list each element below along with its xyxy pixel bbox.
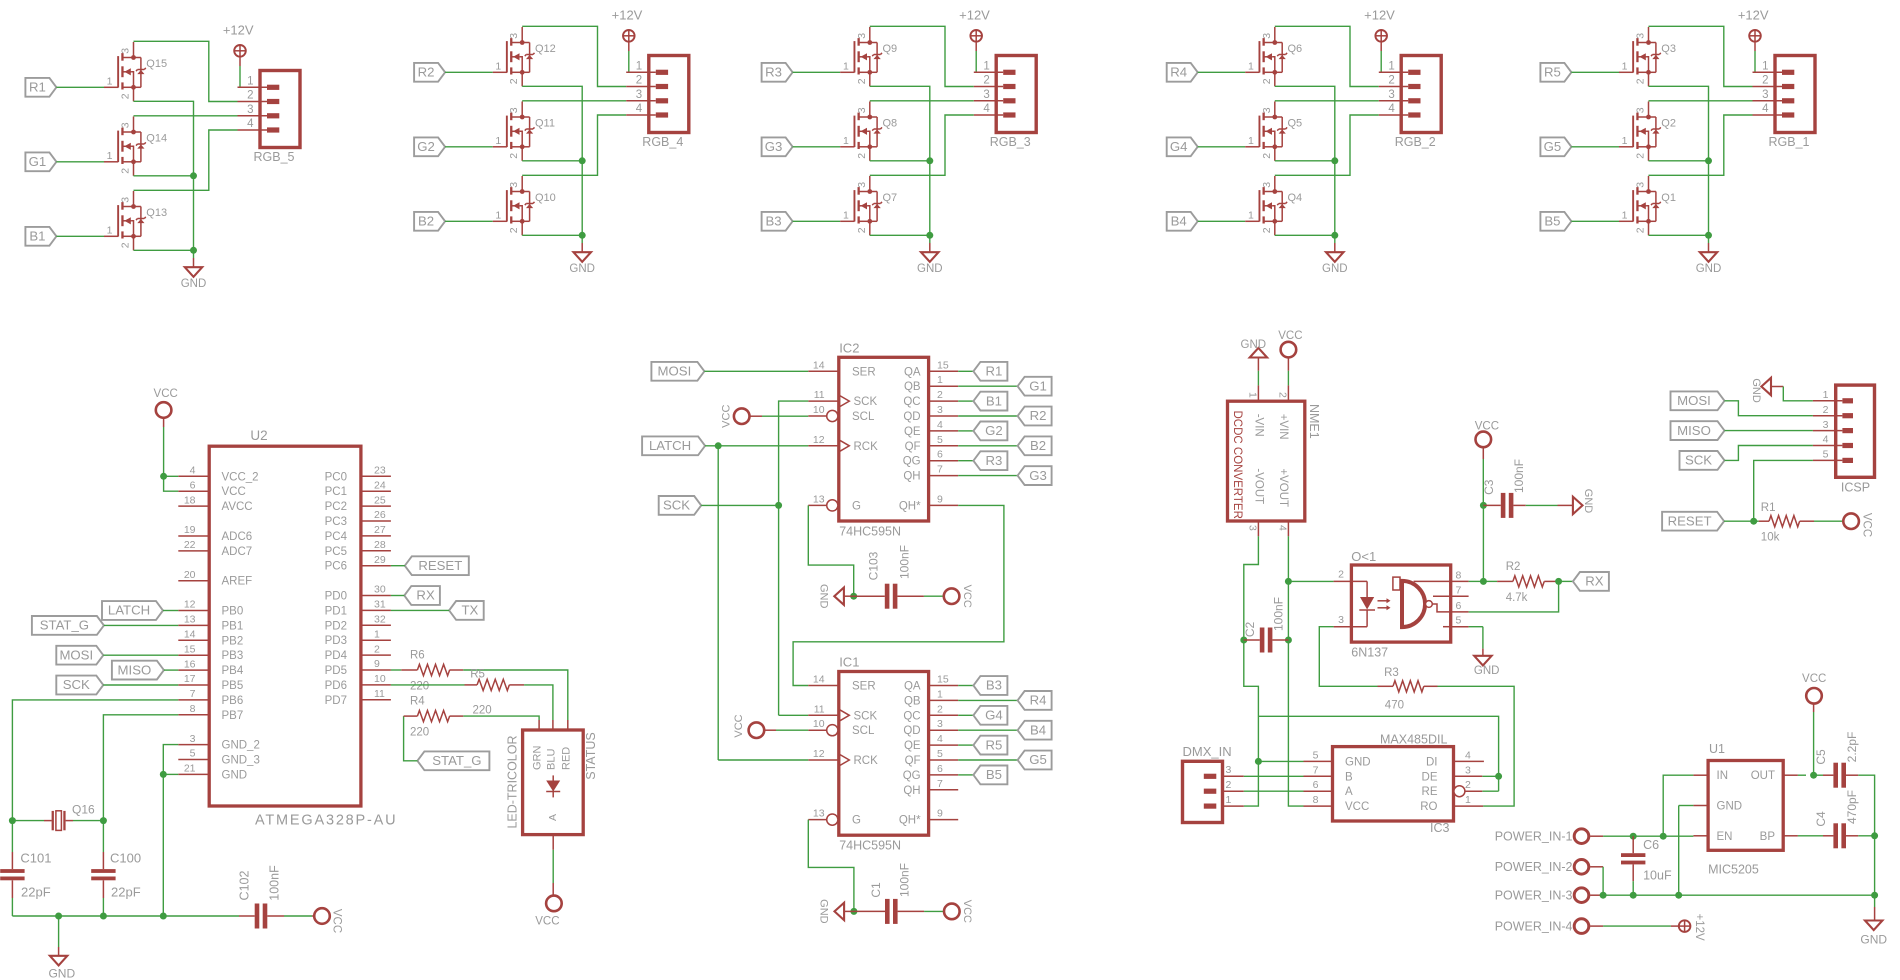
net flag B5 at IC1 [973, 766, 1007, 785]
svg-text:15: 15 [937, 359, 949, 371]
wire IC2 QB to G1 [958, 385, 1017, 387]
svg-text:Q3: Q3 [1661, 43, 1676, 55]
svg-text:VCC_2: VCC_2 [222, 471, 259, 483]
svg-text:QE: QE [904, 740, 921, 752]
capacitor C6 10uF [1621, 836, 1672, 895]
svg-text:20: 20 [184, 569, 196, 581]
svg-text:PD5: PD5 [325, 665, 347, 677]
svg-text:1: 1 [1226, 794, 1232, 806]
svg-text:2: 2 [983, 75, 989, 87]
net flag MISO [112, 661, 164, 680]
svg-text:LED-TRICOLOR: LED-TRICOLOR [506, 735, 520, 828]
svg-text:DMX_IN: DMX_IN [1183, 744, 1232, 759]
wire SCK down to IC1 SCK pin [779, 505, 809, 715]
net flag LATCH at IC2 [642, 436, 705, 455]
svg-text:GND: GND [569, 263, 595, 275]
svg-text:G3: G3 [1029, 468, 1047, 483]
svg-text:VCC: VCC [1860, 513, 1872, 537]
svg-text:GND: GND [818, 899, 830, 924]
wire Q4 source, junction [1275, 232, 1339, 239]
wire IC1 QD to B4 [958, 729, 1017, 731]
svg-text:2: 2 [508, 153, 520, 159]
svg-text:GND: GND [1750, 378, 1762, 403]
wire LATCH to PB0 [163, 610, 178, 612]
RS-485 transceiver IC3 MAX485DIL [1304, 733, 1484, 835]
svg-text:5: 5 [1313, 749, 1319, 761]
wire Q11 source, junction [522, 157, 586, 164]
transistor Q9 (N-MOSFET) [840, 27, 897, 86]
svg-text:1: 1 [1622, 60, 1628, 72]
wire isolated ground to DMX pin 1 [1244, 640, 1259, 806]
+12V supply at POWER_IN-4 [1679, 914, 1705, 942]
wire PC6 to RESET [391, 565, 405, 567]
svg-text:PC2: PC2 [325, 501, 347, 513]
svg-text:PD3: PD3 [325, 635, 347, 647]
svg-text:G2: G2 [417, 139, 435, 154]
wire IC1 QG to B5 [958, 774, 973, 776]
svg-text:VCC: VCC [1802, 673, 1826, 685]
net flag R3 [762, 63, 793, 82]
svg-text:POWER_IN-3: POWER_IN-3 [1495, 889, 1573, 903]
svg-text:QB: QB [904, 695, 921, 707]
power VCC at C103 [944, 585, 973, 608]
wire to MAX485 GND, junction [1255, 758, 1304, 765]
svg-text:POWER_IN-4: POWER_IN-4 [1495, 919, 1573, 933]
wire IC1 QA to B3 [958, 685, 973, 687]
svg-text:Q1: Q1 [1661, 192, 1676, 204]
svg-text:4: 4 [1277, 525, 1289, 531]
+12V supply symbol [223, 23, 254, 57]
microcontroller U2 ATMEGA328P-AU [178, 428, 397, 828]
svg-text:6N137: 6N137 [1351, 646, 1388, 660]
svg-text:3: 3 [1465, 764, 1471, 776]
wire Q1 drain to RGB_1 pin 4 [1649, 115, 1753, 175]
svg-text:2: 2 [508, 78, 520, 84]
transistor Q6 (N-MOSFET) [1245, 27, 1302, 86]
wire U1 OUT, junction [1798, 772, 1817, 779]
svg-text:7: 7 [937, 464, 943, 476]
svg-text:8: 8 [190, 703, 196, 715]
svg-text:PC3: PC3 [325, 516, 347, 528]
capacitor C1 100nF [854, 863, 945, 924]
svg-text:3: 3 [120, 48, 132, 54]
svg-text:Q7: Q7 [883, 192, 898, 204]
svg-text:G: G [852, 815, 861, 827]
regulator U1 MIC5205 [1693, 742, 1798, 877]
svg-text:RGB_4: RGB_4 [642, 135, 683, 149]
resistor R4 220 [410, 696, 463, 739]
ground GND above NME1 [1241, 339, 1268, 371]
svg-text:VCC: VCC [721, 405, 733, 428]
svg-text:11: 11 [374, 688, 385, 700]
svg-text:3: 3 [1762, 89, 1768, 101]
junction C2 left [1240, 637, 1247, 644]
wire Q10 drain to RGB_4 pin 4 [522, 115, 626, 175]
wire IC1 G to ground [808, 820, 854, 912]
transistor Q7 (N-MOSFET) [840, 176, 897, 235]
power VCC below LED [535, 896, 561, 928]
svg-text:7: 7 [1313, 764, 1319, 776]
svg-text:QD: QD [903, 411, 920, 423]
svg-text:U2: U2 [250, 428, 267, 443]
svg-text:1: 1 [1823, 389, 1829, 401]
svg-text:MOSI: MOSI [658, 364, 692, 379]
svg-text:1: 1 [843, 135, 849, 147]
svg-text:GND: GND [181, 278, 207, 290]
svg-text:19: 19 [184, 524, 196, 536]
svg-text:C4: C4 [1814, 811, 1828, 827]
svg-text:RESET: RESET [418, 558, 462, 573]
svg-text:SCL: SCL [852, 725, 875, 737]
wire IC2 G to ground [808, 505, 853, 596]
wire NME1 -VOUT down [1244, 536, 1259, 640]
wire Q15 source down [134, 101, 194, 176]
svg-text:28: 28 [374, 539, 386, 551]
net flag R5 [1540, 63, 1571, 82]
svg-text:RGB_5: RGB_5 [254, 150, 295, 164]
svg-text:R5: R5 [470, 669, 485, 681]
net flag B2 [414, 212, 445, 231]
net flag STAT_G (LED) [417, 751, 489, 770]
wire Q1 source, junction [1649, 232, 1713, 239]
wire VCC to IC2 SCL [762, 415, 808, 417]
net flag MOSI [56, 646, 103, 665]
net flag MISO at ICSP [1671, 421, 1725, 440]
svg-text:TX: TX [461, 603, 478, 618]
wire isolated ground to MAX485 DE [1258, 716, 1498, 776]
svg-text:6: 6 [937, 763, 943, 775]
capacitor C102 100nF [238, 865, 315, 929]
svg-text:PD0: PD0 [325, 591, 347, 603]
svg-text:MAX485DIL: MAX485DIL [1380, 733, 1447, 747]
svg-text:GND: GND [817, 584, 829, 609]
wire +VOUT to opto pin 2, junction [1285, 578, 1334, 585]
svg-text:23: 23 [374, 465, 386, 477]
svg-text:G1: G1 [1029, 378, 1047, 393]
svg-text:13: 13 [813, 808, 825, 820]
wire MOSI to IC2 SER [704, 370, 808, 372]
net flag RX [404, 586, 440, 605]
svg-text:BP: BP [1760, 831, 1776, 843]
svg-text:31: 31 [374, 599, 386, 611]
svg-text:Q10: Q10 [535, 192, 556, 204]
svg-text:22pF: 22pF [111, 885, 141, 900]
net flag SCK at ICSP [1680, 451, 1725, 470]
svg-text:10: 10 [813, 404, 825, 416]
wire LED anode to VCC [552, 835, 554, 897]
svg-text:GND: GND [222, 769, 248, 781]
svg-text:GRN: GRN [532, 746, 544, 771]
svg-text:PC6: PC6 [325, 561, 347, 573]
svg-text:3: 3 [937, 718, 943, 730]
wire SCK to ICSP pin 4 [1725, 446, 1813, 461]
svg-text:AREF: AREF [222, 576, 253, 588]
svg-text:B2: B2 [418, 214, 434, 229]
wire VCC to NME1 pin 2 [1287, 371, 1289, 386]
wire R4 to Q6 gate [1198, 71, 1246, 73]
shift register IC1 74HC595N [808, 655, 958, 853]
wire R4 to LED GRN [463, 716, 539, 730]
svg-text:Q5: Q5 [1288, 118, 1303, 130]
svg-text:2: 2 [1823, 404, 1829, 416]
svg-text:G4: G4 [1170, 139, 1188, 154]
net flag B3 [762, 212, 793, 231]
net flag B1 [25, 227, 56, 246]
svg-text:QE: QE [904, 426, 921, 438]
wire IC2 QF to B2 [958, 445, 1017, 447]
svg-text:470: 470 [1385, 700, 1404, 712]
svg-text:R1: R1 [29, 80, 46, 95]
svg-text:2: 2 [1226, 779, 1232, 791]
svg-text:C102: C102 [238, 871, 252, 901]
svg-text:1: 1 [636, 60, 642, 72]
svg-text:6: 6 [1456, 600, 1462, 612]
svg-text:3: 3 [190, 733, 196, 745]
svg-text:R3: R3 [985, 453, 1002, 468]
svg-text:12: 12 [184, 599, 196, 611]
svg-text:MISO: MISO [1677, 423, 1711, 438]
wire U1 GND to rail [1679, 806, 1694, 896]
transistor Q14 (N-MOSFET) [104, 117, 167, 176]
svg-text:SCK: SCK [63, 677, 90, 692]
svg-text:VCC: VCC [222, 486, 246, 498]
wire IC2 QH* to IC1 SER [793, 505, 1004, 685]
power VCC above C3 [1475, 421, 1499, 460]
svg-text:B4: B4 [1171, 214, 1187, 229]
svg-text:Q6: Q6 [1288, 43, 1303, 55]
net flag RX at opto [1573, 572, 1609, 591]
net flag B4 [1167, 212, 1198, 231]
net flag B5 [1540, 212, 1571, 231]
wire R5 to Q3 gate [1571, 71, 1619, 73]
svg-text:2: 2 [1338, 569, 1344, 581]
svg-text:3: 3 [1635, 107, 1647, 113]
svg-text:GND: GND [1474, 665, 1500, 677]
svg-text:IC1: IC1 [839, 655, 859, 670]
wire Q7 source, junction [870, 232, 934, 239]
net flag RESET at ICSP [1662, 512, 1724, 531]
wire Q5 drain to RGB_2 pin 3 [1275, 100, 1379, 102]
net flag G1 at IC2 [1018, 377, 1052, 396]
svg-text:PD2: PD2 [325, 620, 347, 632]
svg-text:1: 1 [1465, 794, 1471, 806]
wire source bus down [581, 161, 583, 236]
transistor Q8 (N-MOSFET) [840, 102, 897, 161]
ground GND at ICSP [1750, 378, 1783, 403]
svg-text:1: 1 [1762, 60, 1768, 72]
power VCC at IC2 SCL [721, 405, 763, 428]
svg-text:Q15: Q15 [146, 58, 167, 70]
svg-text:R5: R5 [1544, 65, 1561, 80]
resistor R1 10k [1754, 502, 1814, 544]
wire OUT up to VCC [1813, 703, 1815, 775]
svg-text:25: 25 [374, 494, 386, 506]
svg-text:15: 15 [937, 674, 949, 686]
svg-text:C6: C6 [1643, 838, 1659, 852]
svg-text:1: 1 [937, 688, 943, 700]
resistor R6 220 [391, 650, 463, 693]
svg-text:4: 4 [190, 465, 196, 477]
wire B4 to Q4 gate [1198, 220, 1246, 222]
svg-text:U1: U1 [1709, 742, 1725, 756]
svg-text:OUT: OUT [1751, 770, 1775, 782]
svg-text:3: 3 [1261, 107, 1273, 113]
svg-text:26: 26 [374, 509, 386, 521]
svg-text:2: 2 [1388, 75, 1394, 87]
svg-text:PB7: PB7 [222, 710, 244, 722]
wire Q2 drain to RGB_1 pin 3 [1649, 100, 1753, 102]
svg-text:2: 2 [1635, 227, 1647, 233]
svg-text:27: 27 [374, 524, 386, 536]
svg-text:4: 4 [1388, 103, 1395, 115]
svg-text:3: 3 [508, 107, 520, 113]
svg-text:PB2: PB2 [222, 635, 244, 647]
svg-text:5: 5 [190, 748, 196, 760]
svg-text:RX: RX [1585, 574, 1604, 589]
svg-text:RED: RED [561, 747, 573, 770]
wire PB7 to crystal [100, 715, 178, 824]
svg-text:GND: GND [1345, 756, 1371, 768]
svg-text:QH: QH [903, 785, 920, 797]
svg-text:14: 14 [813, 674, 825, 686]
wire IC2 QA to R1 [958, 370, 973, 372]
svg-text:VCC: VCC [961, 585, 973, 608]
svg-text:B3: B3 [766, 214, 782, 229]
svg-text:R4: R4 [1030, 693, 1047, 708]
svg-text:RGB_1: RGB_1 [1769, 135, 1810, 149]
svg-text:14: 14 [184, 629, 196, 641]
power VCC at C1 [944, 900, 973, 923]
wire ground rail [12, 913, 239, 920]
svg-text:Q11: Q11 [535, 118, 555, 130]
svg-text:IC3: IC3 [1430, 821, 1450, 835]
svg-text:3: 3 [1635, 182, 1647, 188]
wire SCK to IC2 SCK, junction [701, 502, 782, 509]
transistor Q15 (N-MOSFET) [104, 42, 167, 101]
svg-text:10k: 10k [1761, 532, 1780, 544]
svg-text:VCC: VCC [1278, 330, 1302, 342]
svg-text:STAT_G: STAT_G [432, 753, 481, 768]
svg-text:ADC6: ADC6 [222, 531, 253, 543]
svg-text:4: 4 [983, 103, 990, 115]
svg-text:Q16: Q16 [72, 803, 95, 817]
svg-text:R6: R6 [410, 650, 425, 662]
svg-text:Q12: Q12 [535, 43, 556, 55]
svg-text:2: 2 [1277, 392, 1289, 398]
svg-text:IN: IN [1717, 770, 1729, 782]
power VCC symbol for U2 [154, 388, 178, 427]
svg-text:B5: B5 [986, 767, 1002, 782]
capacitor C4 470pF [1798, 790, 1859, 848]
svg-text:+12V: +12V [1738, 8, 1769, 23]
svg-text:74HC595N: 74HC595N [839, 839, 901, 853]
ground GND bottom-right [1860, 921, 1887, 947]
svg-text:1: 1 [843, 60, 849, 72]
wire R6 to LED RED [463, 670, 568, 730]
svg-text:100nF: 100nF [898, 863, 912, 897]
net flag LATCH [102, 601, 163, 620]
svg-text:QH*: QH* [899, 815, 921, 827]
svg-text:ICSP: ICSP [1841, 481, 1870, 495]
svg-text:GND: GND [1860, 933, 1887, 947]
svg-text:R3: R3 [1384, 667, 1399, 679]
svg-text:1: 1 [937, 374, 943, 386]
power VCC at R1 [1843, 513, 1872, 537]
svg-text:RX: RX [416, 588, 435, 603]
svg-text:B4: B4 [1030, 722, 1046, 737]
connector RGB_1 [1753, 56, 1816, 150]
svg-text:Q14: Q14 [146, 133, 167, 145]
pad POWER_IN-1 [1495, 829, 1589, 844]
svg-text:ADC7: ADC7 [222, 546, 253, 558]
svg-text:14: 14 [813, 359, 825, 371]
svg-text:G3: G3 [765, 139, 783, 154]
wire R5 to LED BLU [524, 685, 553, 730]
wire IC1 QB to R4 [958, 699, 1017, 701]
transistor Q5 (N-MOSFET) [1245, 102, 1302, 161]
capacitor C3 100nF [1482, 459, 1573, 518]
svg-text:R1: R1 [985, 364, 1002, 379]
svg-text:17: 17 [184, 673, 196, 685]
wire R3 to MAX485 RO [1438, 686, 1515, 806]
svg-text:1: 1 [843, 209, 849, 221]
svg-text:3: 3 [1226, 764, 1232, 776]
net flag MOSI at ICSP [1671, 391, 1725, 410]
svg-text:QA: QA [904, 681, 921, 693]
svg-text:O<1: O<1 [1351, 549, 1376, 564]
svg-text:G1: G1 [29, 154, 47, 169]
wire source bus down [193, 176, 195, 251]
wire LATCH to IC2 RCK, junction [705, 442, 808, 449]
ground GND [181, 267, 207, 290]
wire GND to ICSP pin 1 [1783, 387, 1813, 401]
resistor R2 4.7k [1483, 561, 1558, 604]
svg-text:2: 2 [1261, 78, 1273, 84]
svg-text:RCK: RCK [854, 755, 879, 767]
svg-text:PD4: PD4 [325, 650, 348, 662]
svg-text:1: 1 [1248, 209, 1254, 221]
svg-text:C2: C2 [1243, 622, 1257, 638]
svg-text:6: 6 [1313, 779, 1319, 791]
wire VCC down to C3, junction [1480, 459, 1487, 509]
wire C4/C5 node to ground rail [1874, 836, 1876, 895]
net flag G2 at IC2 [973, 422, 1007, 441]
svg-text:3: 3 [120, 122, 132, 128]
svg-text:13: 13 [813, 493, 825, 505]
wire Q3 drain to RGB_1 pin 2 [1649, 26, 1753, 86]
svg-text:PC4: PC4 [325, 531, 348, 543]
wire SCK up to IC2 SCK pin [779, 401, 809, 505]
svg-text:+12V: +12V [959, 8, 990, 23]
svg-text:PD7: PD7 [325, 695, 347, 707]
wire IC2 QD to R2 [958, 415, 1017, 417]
wire Q9 source down [870, 86, 930, 161]
svg-text:4: 4 [937, 419, 943, 431]
wire Q14 drain to RGB_5 pin 3 [134, 115, 238, 117]
pad POWER_IN-3 [1495, 888, 1589, 903]
svg-text:4: 4 [636, 103, 643, 115]
svg-text:2: 2 [508, 227, 520, 233]
net flag G3 at IC2 [1018, 466, 1052, 485]
pad POWER_IN-4 [1495, 919, 1589, 934]
ground GND right of C3 [1573, 489, 1594, 514]
wire PD1 to TX [391, 609, 449, 611]
svg-text:QG: QG [903, 456, 921, 468]
svg-text:8: 8 [1456, 569, 1462, 581]
wire Q12 source down [522, 86, 582, 161]
wire GND to NME1 pin 1 [1257, 371, 1259, 386]
svg-text:PC5: PC5 [325, 546, 347, 558]
